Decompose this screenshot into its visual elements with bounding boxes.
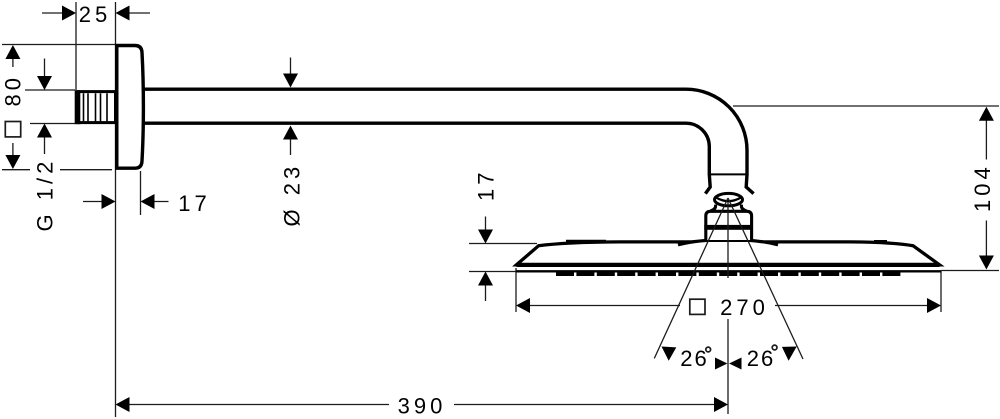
svg-text:26: 26 — [747, 346, 775, 371]
svg-text:17: 17 — [178, 191, 210, 216]
svg-text:17: 17 — [474, 169, 499, 201]
svg-text:26: 26 — [680, 346, 708, 371]
svg-text:270: 270 — [720, 295, 769, 320]
svg-text:G 1/2: G 1/2 — [33, 158, 58, 232]
svg-text:Ø 23: Ø 23 — [280, 163, 305, 227]
svg-text:390: 390 — [398, 393, 447, 418]
svg-text:25: 25 — [79, 2, 111, 27]
svg-text:104: 104 — [970, 163, 995, 212]
svg-text:80: 80 — [0, 74, 25, 106]
